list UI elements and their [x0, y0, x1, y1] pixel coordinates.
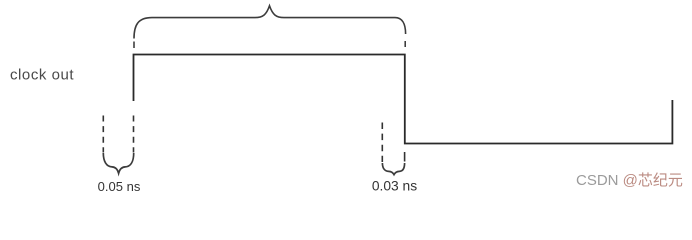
wire: left dashed extension line (left of 0.05 ns gap) [102, 116, 104, 153]
svg-text:0.05 ns: 0.05 ns [98, 179, 141, 194]
wire: dashed line left of falling edge (0.03 ns gap) [381, 123, 383, 163]
svg-text:CSDN @芯纪元: CSDN @芯纪元 [576, 172, 683, 189]
wire: clock waveform (rising edge, high level, falling edge, low level, end tick) [134, 55, 673, 144]
wire: dashed tick below brace left end [133, 42, 135, 49]
wire: dashed tick below brace right end [404, 41, 406, 47]
svg-text:clock out: clock out [10, 67, 74, 84]
wire: dashed continuation of falling edge below low level [404, 152, 406, 162]
wire: right dashed extension line (aligned with rising edge) [133, 116, 135, 153]
svg-text:0.03 ns: 0.03 ns [372, 179, 417, 194]
brace: 0.03 ns lower brace [382, 163, 404, 175]
brace: 0.05 ns lower brace [103, 153, 133, 173]
brace: top period brace over high pulse [134, 6, 406, 39]
